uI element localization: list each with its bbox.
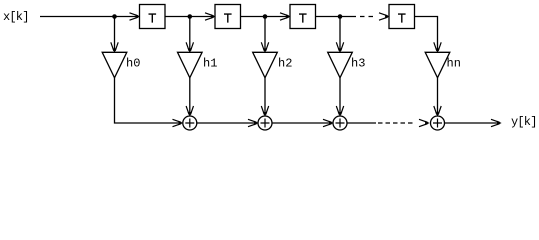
arrow into coefficient h3 bbox=[336, 42, 343, 53]
arrow into delay T1 bbox=[130, 13, 141, 20]
svg-text:y[k]: y[k] bbox=[511, 115, 537, 129]
svg-text:x[k]: x[k] bbox=[3, 10, 29, 24]
svg-text:h1: h1 bbox=[203, 57, 217, 71]
arrow into delay T3 bbox=[280, 13, 291, 20]
arrow into coefficient h2 bbox=[261, 42, 268, 53]
wire: Tn output to hn tap (corner) bbox=[415, 17, 438, 52]
junction dot tap h1 bbox=[188, 14, 193, 19]
arrow into coefficient h1 bbox=[186, 42, 193, 53]
arrow into adder S3 top bbox=[336, 106, 343, 117]
wire: input rail from x[k] to delay T1 bbox=[40, 16, 138, 18]
wire: S4 to output y[k] bbox=[445, 122, 500, 124]
coefficient multiplier h1 bbox=[178, 52, 218, 78]
wire: tap line down to h3 bbox=[339, 17, 341, 52]
wire: dashed continuation to delay Tn bbox=[352, 16, 376, 18]
delay element Tn bbox=[389, 5, 415, 29]
wire: tap line down to h2 bbox=[264, 17, 266, 52]
wire: T2 to T3 bbox=[241, 16, 289, 18]
junction dot tap h2 bbox=[263, 14, 268, 19]
arrow into adder S4 bbox=[419, 119, 430, 126]
arrow at output bbox=[491, 119, 502, 126]
arrow into adder S3 bbox=[323, 119, 334, 126]
junction dot tap h3 bbox=[338, 14, 343, 19]
adder S4 bbox=[431, 116, 445, 130]
coefficient multiplier h3 bbox=[328, 52, 366, 78]
coefficient multiplier hn bbox=[425, 52, 461, 78]
arrow into delay Tn bbox=[379, 13, 390, 20]
wire: h3 output down to adder S3 bbox=[339, 78, 341, 115]
wire: T1 to T2 bbox=[165, 16, 214, 18]
delay element T2 bbox=[215, 5, 241, 29]
arrow into adder S2 bbox=[248, 119, 259, 126]
wire: h1 output down to adder S1 bbox=[189, 78, 191, 115]
svg-text:h2: h2 bbox=[278, 57, 292, 71]
adder S1 bbox=[183, 116, 197, 130]
wire: S1 to S2 bbox=[197, 122, 257, 124]
wire: hn output down to adder S4 bbox=[437, 78, 439, 115]
arrow into delay T2 bbox=[205, 13, 216, 20]
wire: tap line down to h0 bbox=[114, 17, 116, 52]
coefficient multiplier h0 bbox=[102, 52, 140, 78]
arrow into adder S2 top bbox=[261, 106, 268, 117]
arrow into adder S4 top bbox=[434, 106, 441, 117]
adder S3 bbox=[333, 116, 347, 130]
wire: S2 to S3 bbox=[272, 122, 332, 124]
delay element T3 bbox=[290, 5, 316, 29]
delay element T1 bbox=[140, 5, 166, 29]
wire: S3 toward S4 solid part bbox=[347, 122, 376, 124]
arrow into adder S1 bbox=[173, 119, 184, 126]
junction dot tap h0 bbox=[112, 14, 117, 19]
wire: tap line down to h1 bbox=[189, 17, 191, 52]
arrow into coefficient hn bbox=[434, 42, 441, 53]
svg-text:h3: h3 bbox=[351, 57, 365, 71]
wire: T3 to tap h3 junction bbox=[316, 16, 352, 18]
wire: h2 output down to adder S2 bbox=[264, 78, 266, 115]
adder S2 bbox=[258, 116, 272, 130]
coefficient multiplier h2 bbox=[253, 52, 293, 78]
wire: h0 output down and right to adder S1 bbox=[115, 78, 182, 123]
svg-text:h0: h0 bbox=[126, 57, 140, 71]
svg-text:hn: hn bbox=[447, 57, 461, 71]
arrow into adder S1 top bbox=[186, 106, 193, 117]
arrow into coefficient h0 bbox=[111, 42, 118, 53]
wire: dashed continuation to adder S4 bbox=[378, 122, 413, 124]
